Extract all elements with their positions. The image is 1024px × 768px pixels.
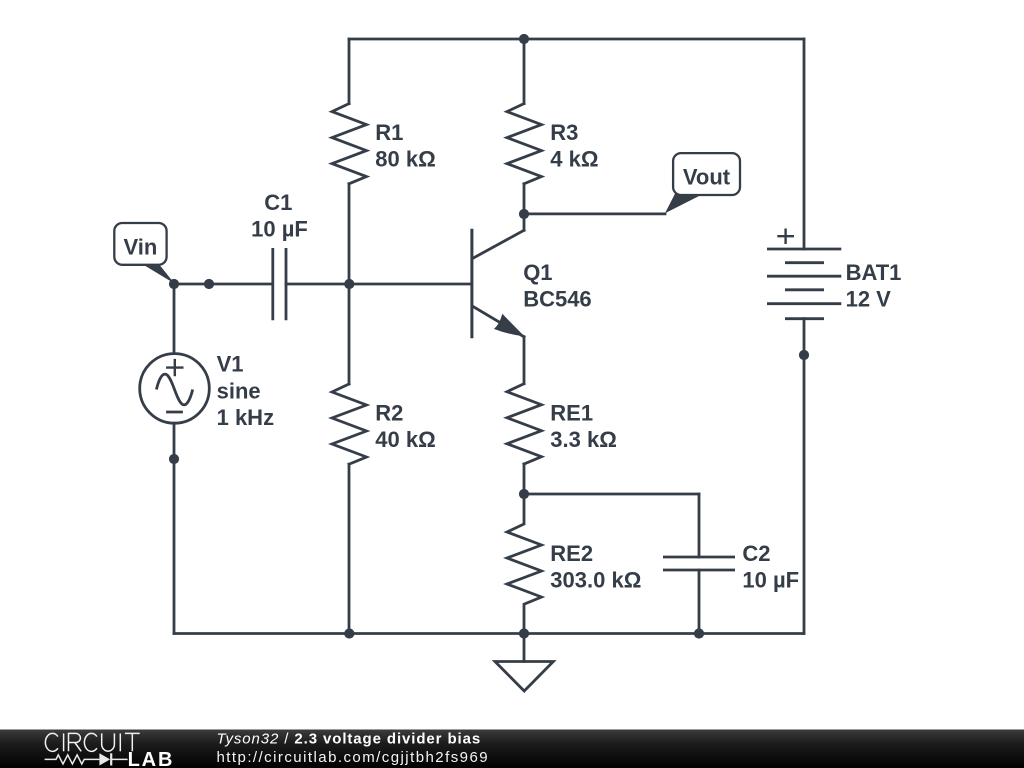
node flag Vout	[665, 153, 740, 213]
wire R2 bottom lead	[348, 464, 351, 633]
wire R1 bottom lead to base node	[348, 184, 351, 284]
wire junction to C2 top	[524, 493, 699, 496]
wire collector node to Vout tap	[524, 212, 665, 215]
node dot RE1/RE2 junction	[519, 489, 529, 499]
svg-text:Vout: Vout	[683, 165, 731, 190]
svg-text:4 kΩ: 4 kΩ	[550, 147, 598, 172]
logo resistor-diode line	[45, 753, 128, 765]
resistor R1	[332, 104, 367, 184]
node dot top rail R3	[519, 34, 529, 44]
transistor Q1 emitter arrow	[494, 314, 525, 337]
capacitor C2	[663, 557, 735, 570]
svg-text:3.3 kΩ: 3.3 kΩ	[550, 427, 617, 452]
resistor R2	[332, 384, 367, 464]
wire base wire from Vin node to C1	[174, 283, 272, 286]
svg-text:12 V: 12 V	[846, 287, 892, 312]
wire R2 top lead	[348, 284, 351, 384]
node dot Vin	[169, 279, 179, 289]
svg-text:C2: C2	[742, 541, 770, 566]
transistor Q1	[523, 214, 526, 230]
svg-text:R1: R1	[375, 120, 403, 145]
svg-text:80 kΩ: 80 kΩ	[375, 147, 435, 172]
wire battery bottom lead to bottom rail	[803, 319, 806, 634]
wire R3 top lead	[523, 39, 526, 104]
svg-text:RE1: RE1	[550, 401, 593, 426]
resistor RE1	[507, 384, 542, 464]
node dot RE2 bottom	[519, 628, 529, 638]
logo CIRCUIT wordmark	[45, 733, 139, 751]
svg-text:Vin: Vin	[123, 235, 157, 260]
logo diode triangle	[99, 753, 110, 765]
svg-text:BAT1: BAT1	[846, 260, 902, 285]
wire V1 top lead	[173, 284, 176, 354]
wire R3 bottom lead to collector node	[523, 184, 526, 214]
wire bottom rail	[174, 632, 804, 635]
wire ground lead	[523, 634, 526, 662]
svg-text:R2: R2	[375, 401, 403, 426]
svg-text:303.0 kΩ: 303.0 kΩ	[550, 568, 641, 593]
svg-text:10 µF: 10 µF	[742, 568, 799, 593]
node dot base/R1R2 junction	[344, 279, 354, 289]
svg-text:40 kΩ: 40 kΩ	[375, 427, 435, 452]
svg-text:LAB: LAB	[128, 749, 175, 768]
node dot battery bottom	[799, 350, 809, 360]
svg-text:Q1: Q1	[523, 260, 552, 285]
node dot collector	[519, 209, 529, 219]
capacitor C1	[273, 248, 286, 320]
ground	[495, 662, 553, 692]
wire C2 top lead	[698, 494, 701, 557]
wire V1 bottom lead to bottom rail	[173, 423, 176, 633]
svg-text:BC546: BC546	[523, 287, 591, 312]
node flag Vin	[114, 223, 174, 284]
wire C1 to transistor base	[286, 283, 471, 286]
wire C2 bottom lead	[698, 570, 701, 634]
svg-text:Tyson32 / 2.3 voltage divider: Tyson32 / 2.3 voltage divider bias	[217, 731, 482, 748]
voltage source V1	[140, 354, 210, 424]
resistor RE2	[507, 494, 542, 634]
node dot below V1	[169, 454, 179, 464]
resistor R3	[507, 104, 542, 184]
node dot C2 bottom	[694, 628, 704, 638]
wire RE1 bottom lead to junction	[523, 464, 526, 494]
svg-text:10 µF: 10 µF	[251, 217, 308, 242]
svg-text:RE2: RE2	[550, 541, 593, 566]
node dot R2 bottom	[344, 628, 354, 638]
svg-text:sine: sine	[217, 378, 261, 403]
svg-text:C1: C1	[264, 190, 292, 215]
wire top rail from R1 top to battery top	[349, 38, 804, 41]
node dot left of C1	[204, 279, 214, 289]
svg-text:1 kHz: 1 kHz	[217, 405, 274, 430]
wire R1 top lead	[348, 39, 351, 104]
battery BAT1	[767, 229, 841, 319]
wire battery top lead	[803, 39, 806, 249]
svg-text:http://circuitlab.com/cgjjtbh2: http://circuitlab.com/cgjjtbh2fs969	[217, 749, 490, 766]
svg-text:V1: V1	[217, 352, 244, 377]
svg-text:R3: R3	[550, 120, 578, 145]
